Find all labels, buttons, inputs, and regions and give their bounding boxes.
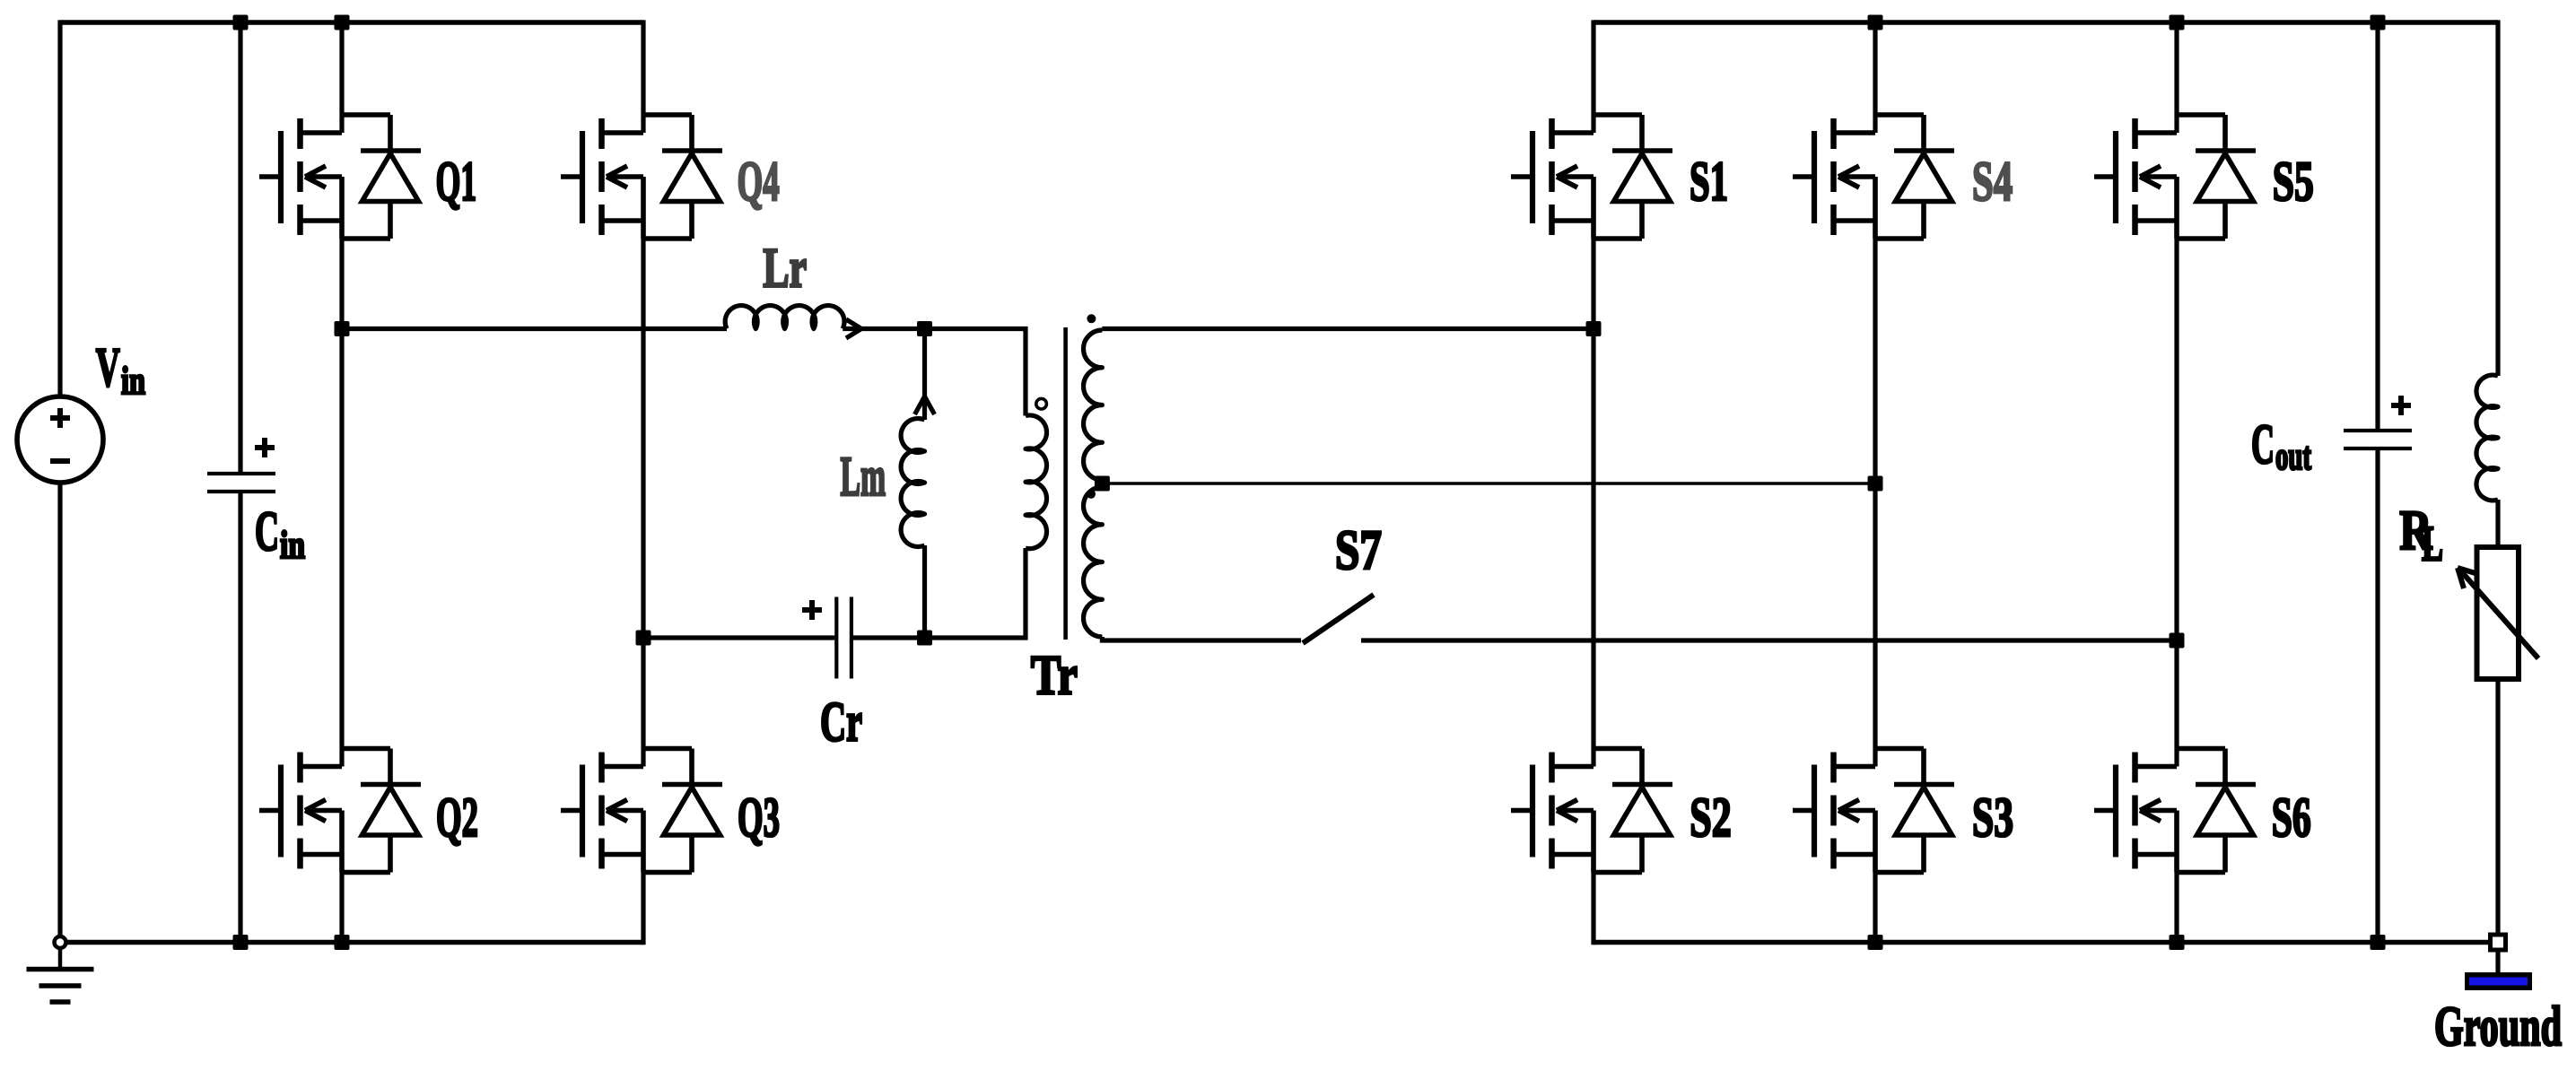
wire inductor to RL	[2495, 500, 2500, 547]
transistor Q3	[561, 749, 722, 873]
wire top-left rail	[60, 20, 643, 25]
junction bridge node A	[335, 321, 350, 336]
capacitor Cr	[802, 597, 851, 679]
junction S1 leg node	[1586, 321, 1602, 336]
wire load branch top	[2495, 20, 2500, 376]
svg-text:Q2: Q2	[436, 786, 478, 849]
resistor RL (variable)	[2477, 547, 2519, 679]
wire bottom-left rail	[65, 940, 643, 945]
wire S1 drain leg	[1591, 20, 1595, 133]
junction S3 bottom	[1868, 935, 1883, 950]
svg-text:C: C	[255, 500, 279, 562]
switch S7 blade	[1303, 595, 1374, 643]
junction Cout top	[2371, 15, 2386, 30]
wire S4 source to S3 drain	[1873, 239, 1877, 767]
transformer Tr secondary bottom winding	[1084, 487, 1103, 637]
svg-text:S5: S5	[2273, 150, 2314, 213]
svg-text:Cr: Cr	[820, 691, 862, 753]
wire Lr to node C with current arrow	[843, 327, 924, 331]
transformer Tr secondary bottom phase dot	[1087, 490, 1096, 499]
transformer Tr core	[1063, 327, 1068, 640]
inductor load filter	[2476, 375, 2498, 501]
ground (analog, left)	[27, 936, 94, 1002]
svg-text:V: V	[96, 337, 120, 398]
wire switch S7 to S6 node	[1361, 638, 2177, 642]
transformer Tr secondary top phase dot	[1087, 314, 1096, 323]
wire node C to transformer primary top	[925, 329, 1026, 416]
junction S6 bottom	[2170, 935, 2185, 950]
svg-text:Q3: Q3	[738, 786, 780, 849]
transistor S1	[1511, 115, 1672, 239]
junction S6 leg node	[2170, 633, 2185, 649]
svg-text:S6: S6	[2272, 786, 2311, 849]
ground terminal node (open square)	[2491, 935, 2506, 950]
voltage source Vin	[17, 396, 103, 483]
junction Q2 leg bottom	[335, 935, 350, 950]
junction node D (Lm bottom)	[917, 631, 932, 646]
svg-text:out: out	[2275, 434, 2311, 478]
label RL	[2399, 499, 2443, 572]
arrow across RL	[2458, 568, 2538, 658]
capacitor Cout	[2344, 22, 2412, 943]
transistor Q1	[259, 115, 421, 239]
wire S3 source leg	[1873, 873, 1877, 943]
inductor Lr	[725, 306, 844, 329]
wire Q4 source to Q3 drain	[641, 239, 645, 767]
svg-text:S4: S4	[1972, 150, 2013, 213]
junction Cout bottom	[2371, 935, 2386, 950]
inductor Lm	[901, 329, 934, 639]
svg-text:S3: S3	[1972, 786, 2013, 849]
transformer Tr secondary top winding	[1084, 330, 1103, 480]
wire node D to transformer primary bottom	[925, 548, 1026, 638]
transistor S2	[1511, 749, 1672, 873]
junction transformer center tap	[1095, 476, 1110, 492]
svg-text:in: in	[280, 523, 305, 567]
transistor S3	[1793, 749, 1954, 873]
svg-text:Lr: Lr	[763, 237, 807, 300]
wire bottom-right rail	[1594, 940, 2498, 945]
junction bridge node B	[636, 631, 651, 646]
wire RL to ground node	[2495, 679, 2500, 943]
wire bridge node B to Cr	[643, 635, 834, 640]
wire secondary bottom to switch S7	[1102, 637, 1301, 640]
junction Q1 leg top	[335, 15, 350, 30]
wire bridge node A to Lr	[342, 327, 727, 331]
wire center tap to S4 node	[1102, 482, 1875, 485]
transformer Tr primary phase dot	[1036, 398, 1047, 409]
wire S4 drain leg	[1873, 22, 1877, 133]
label Cin	[255, 500, 305, 567]
junction S4 leg node (center tap)	[1868, 476, 1883, 492]
svg-text:in: in	[121, 359, 145, 403]
wire Q4 drain leg	[641, 20, 645, 133]
junction node C (Lm top)	[917, 321, 932, 336]
svg-text:S2: S2	[1690, 786, 1731, 849]
svg-text:C: C	[2251, 413, 2275, 475]
junction Cin bottom	[233, 935, 249, 950]
wire left rail lower	[57, 483, 62, 936]
wire Q2 source leg	[339, 873, 344, 943]
wire Cr to node D	[853, 635, 925, 640]
transistor S4	[1793, 115, 1954, 239]
transistor S6	[2094, 749, 2256, 873]
transistor S5	[2094, 115, 2256, 239]
svg-text:S1: S1	[1690, 150, 1728, 213]
wire S5 source to S6 drain	[2174, 239, 2179, 767]
svg-text:Q1: Q1	[436, 150, 477, 213]
wire top-right rail	[1594, 20, 2498, 25]
wire S5 drain leg	[2174, 22, 2179, 133]
transformer Tr primary winding	[1026, 415, 1047, 549]
transistor Q2	[259, 749, 421, 873]
junction S4 top	[1868, 15, 1883, 30]
transistor Q4	[561, 115, 722, 239]
capacitor Cin	[207, 22, 275, 943]
wire S1 source to S2 drain	[1591, 239, 1595, 767]
svg-text:Tr: Tr	[1031, 644, 1078, 707]
wire Q1 drain leg	[339, 22, 344, 133]
svg-text:Ground: Ground	[2434, 995, 2562, 1058]
junction Cin top	[233, 15, 249, 30]
wire S2 source leg	[1591, 873, 1595, 945]
wire Q1 source to Q2 drain	[339, 239, 344, 767]
svg-text:L: L	[2422, 517, 2443, 572]
junction S5 top	[2170, 15, 2185, 30]
label Cout	[2251, 413, 2311, 478]
ground bar (blue)	[2465, 972, 2532, 990]
svg-text:Q4: Q4	[738, 150, 780, 213]
wire Q3 source leg	[641, 873, 645, 945]
svg-text:S7: S7	[1335, 518, 1382, 581]
svg-text:Lm: Lm	[841, 445, 886, 508]
wire ground stub	[2495, 950, 2500, 974]
wire left rail upper	[57, 20, 62, 396]
label Vin	[96, 337, 145, 403]
wire secondary top to S1 node	[1102, 327, 1594, 331]
wire S6 source leg	[2174, 873, 2179, 943]
